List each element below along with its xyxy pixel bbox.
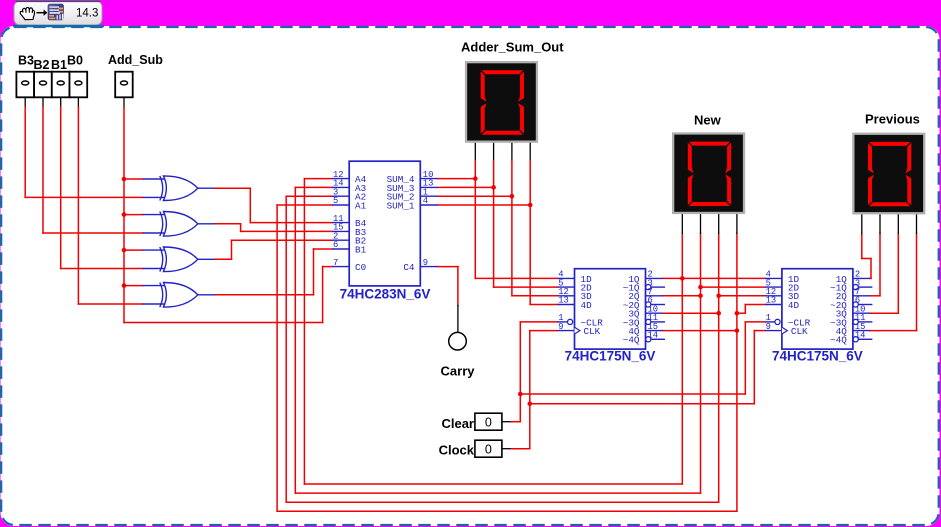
wire net Add_Sub with junctions at XOR inputs <box>122 107 333 323</box>
svg-text:CLK: CLK <box>791 326 808 337</box>
wire B1 switch stub <box>60 97 62 107</box>
switch Add_Sub <box>115 72 133 98</box>
wire net SUM_4 to register D and Adder_Sum_Out display <box>438 143 558 279</box>
svg-text:Previous: Previous <box>865 112 920 127</box>
toolbar button group <box>13 1 104 26</box>
svg-text:B3: B3 <box>18 54 34 68</box>
svg-text:13: 13 <box>558 296 569 306</box>
IC 74HC283N_6V adder <box>332 161 437 301</box>
svg-text:C4: C4 <box>403 262 415 273</box>
7-segment display Previous <box>852 133 925 215</box>
svg-text:13: 13 <box>766 296 777 306</box>
svg-text:74HC175N_6V: 74HC175N_6V <box>565 349 656 364</box>
wire net Clear to ~CLR pins <box>502 322 765 422</box>
wire chip2 1Q to Previous display pin1 <box>862 214 871 278</box>
svg-text:4: 4 <box>423 196 428 206</box>
wire net B3 <box>25 107 142 197</box>
svg-text:14: 14 <box>855 331 866 341</box>
svg-text:Adder_Sum_Out: Adder_Sum_Out <box>461 40 564 55</box>
svg-text:Carry: Carry <box>441 364 476 379</box>
wire chip2 2D feed <box>698 285 765 290</box>
svg-text:6: 6 <box>333 240 338 250</box>
svg-text:B2: B2 <box>34 58 50 72</box>
svg-text:5: 5 <box>333 196 338 206</box>
wire feedback bus bit 2 (register Q to adder A2 and New display) <box>286 196 719 502</box>
wire chip2 3Q to Previous display pin3 <box>870 214 898 313</box>
switch B1 <box>52 72 70 98</box>
toolbar instrument icon <box>48 4 64 20</box>
wire net B2 <box>43 107 143 233</box>
wire AS switch stub <box>123 97 125 107</box>
svg-text:B0: B0 <box>67 54 83 68</box>
toolbar hand cursor icon <box>20 7 34 19</box>
Clear input box <box>475 413 502 430</box>
7-segment display New <box>672 132 745 214</box>
svg-text:SUM_1: SUM_1 <box>387 200 415 211</box>
wire 1Q to chip2 1D <box>663 276 765 281</box>
switch B3 <box>16 72 34 98</box>
XOR gate U2A <box>143 176 215 201</box>
svg-text:Clear: Clear <box>441 416 474 431</box>
wire B3 switch stub <box>24 97 26 107</box>
svg-text:B1: B1 <box>51 58 67 72</box>
wire XOR1 out to adder B4 <box>215 188 333 222</box>
wire net SUM_3 to register D and Adder_Sum_Out display <box>438 143 558 287</box>
svg-text:0: 0 <box>485 415 492 429</box>
wire net B0 <box>78 107 142 304</box>
svg-text:4D: 4D <box>788 300 800 311</box>
XOR gate U3A <box>143 211 215 236</box>
wire B2 switch stub <box>42 97 44 107</box>
IC U6 74HC175N_6V <box>765 269 873 364</box>
svg-text:CLK: CLK <box>584 326 601 337</box>
svg-text:0: 0 <box>485 442 492 456</box>
wire XOR3 out to adder B2 <box>215 240 333 259</box>
wire chip1 4Q <box>663 328 740 333</box>
svg-text:B1: B1 <box>355 244 367 255</box>
Carry output terminal <box>449 332 467 350</box>
Clock input box <box>475 440 502 457</box>
switch B2 <box>34 72 52 98</box>
XOR gate U5A <box>143 282 215 307</box>
IC U5 74HC175N_6V <box>558 269 666 364</box>
wire feedback bus bit 0 (register Q to adder A4 and New display) <box>304 179 682 484</box>
wire net SUM_2 to register D and Adder_Sum_Out display <box>438 143 558 296</box>
svg-text:74HC175N_6V: 74HC175N_6V <box>772 349 863 364</box>
svg-text:A1: A1 <box>355 200 367 211</box>
svg-text:7: 7 <box>333 258 338 268</box>
svg-text:9: 9 <box>766 322 771 332</box>
wire feedback bus bit 3 (register Q to adder A1 and New display) <box>277 205 737 511</box>
wire chip1 3Q <box>663 311 722 316</box>
switch B0 <box>70 72 88 98</box>
wire XOR2 out to adder B3 <box>215 224 333 232</box>
svg-text:9: 9 <box>558 322 563 332</box>
wire net B1 <box>61 107 143 269</box>
wire chip2 4D feed jog <box>735 305 765 316</box>
wire XOR4 out to adder B1 <box>215 249 333 295</box>
wire chip2 4Q to Previous display pin4 <box>870 214 917 330</box>
svg-text:14.3: 14.3 <box>76 8 98 20</box>
svg-text:Add_Sub: Add_Sub <box>108 53 163 67</box>
wire B0 switch stub <box>77 97 79 107</box>
7-segment display Adder_Sum_Out <box>465 61 538 143</box>
svg-text:~4Q: ~4Q <box>623 335 640 346</box>
wire net Clock to CLK pins <box>502 331 765 449</box>
wire chip1 2Q <box>663 294 703 299</box>
svg-text:C0: C0 <box>355 262 366 273</box>
wire feedback bus bit 1 (register Q to adder A3 and New display) <box>295 187 700 493</box>
wire net C4 to Carry <box>438 267 458 333</box>
wire chip2 2Q to Previous display pin2 <box>870 214 880 295</box>
wire net SUM_1 to register D and Adder_Sum_Out display <box>438 143 558 305</box>
svg-text:~4Q: ~4Q <box>830 335 847 346</box>
svg-text:74HC283N_6V: 74HC283N_6V <box>340 287 431 302</box>
svg-text:4D: 4D <box>581 300 593 311</box>
svg-text:14: 14 <box>648 331 659 341</box>
wire chip2 3D feed <box>716 294 765 299</box>
svg-text:New: New <box>694 113 722 128</box>
toolbar arrow glyph <box>37 10 48 16</box>
svg-text:9: 9 <box>423 258 428 268</box>
XOR gate U4A <box>143 247 215 272</box>
svg-text:Clock: Clock <box>439 443 475 458</box>
